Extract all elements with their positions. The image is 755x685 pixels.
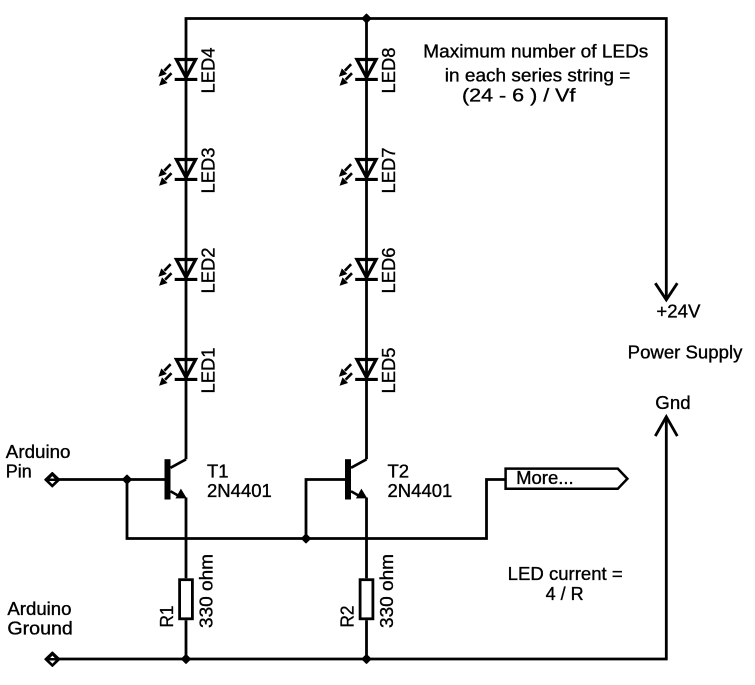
LED LED8	[339, 48, 399, 94]
svg-text:R1: R1	[156, 606, 177, 628]
wire T1 emitter to R1	[185, 498, 188, 579]
wire left LED string (column 1)	[185, 19, 188, 460]
LED LED4	[158, 48, 218, 94]
label Arduino Pin	[6, 441, 71, 482]
junction base net / T2 riser	[302, 534, 311, 543]
svg-text:330 ohm: 330 ohm	[195, 554, 216, 628]
note: LED current formula	[508, 563, 623, 604]
wire T2 emitter to R2	[365, 498, 368, 579]
svg-text:LED2: LED2	[197, 248, 218, 294]
port Arduino Ground	[45, 652, 60, 666]
port Arduino Pin	[45, 473, 60, 487]
+24V supply arrow (down)	[655, 283, 677, 300]
svg-text:330 ohm: 330 ohm	[376, 554, 397, 628]
svg-text:2N4401: 2N4401	[388, 480, 453, 501]
junction top rail / column 2	[362, 14, 371, 23]
wire R2 to ground rail	[365, 620, 368, 659]
wire Arduino Ground rail and Gnd riser	[59, 418, 666, 660]
wire riser to T2 base	[306, 480, 345, 539]
junction R2 / ground rail	[362, 655, 371, 664]
junction R1 / ground rail	[182, 655, 191, 664]
resistor R1 330 ohm	[156, 554, 216, 628]
svg-text:More...: More...	[516, 467, 574, 488]
svg-text:Gnd: Gnd	[655, 392, 690, 413]
svg-text:Maximum number of LEDs: Maximum number of LEDs	[423, 41, 648, 62]
svg-text:T2: T2	[388, 461, 410, 482]
wire top +24V rail	[185, 19, 667, 300]
svg-text:4 / R: 4 / R	[546, 583, 584, 604]
svg-text:T1: T1	[207, 461, 229, 482]
svg-text:Pin: Pin	[6, 461, 32, 482]
svg-text:Ground: Ground	[7, 617, 72, 638]
LED LED3	[158, 148, 218, 194]
LED LED2	[158, 248, 218, 294]
svg-text:Arduino: Arduino	[6, 441, 71, 462]
Gnd arrow (up)	[655, 417, 677, 436]
svg-text:LED current =: LED current =	[508, 563, 623, 584]
svg-text:LED4: LED4	[197, 48, 218, 94]
svg-text:Arduino: Arduino	[7, 598, 71, 619]
resistor R2 330 ohm	[337, 554, 397, 628]
LED LED1	[158, 348, 218, 394]
svg-text:LED1: LED1	[197, 348, 218, 394]
label Arduino Ground	[7, 598, 72, 638]
svg-text:Power Supply: Power Supply	[628, 341, 743, 362]
LED LED6	[339, 248, 399, 294]
wire Arduino Pin to T1 base	[59, 478, 165, 481]
svg-text:in each series string =: in each series string =	[445, 64, 631, 85]
svg-text:LED7: LED7	[378, 148, 399, 194]
junction T1 base	[123, 475, 132, 484]
wire right LED string (column 2)	[365, 19, 368, 460]
note: maximum LEDs formula	[423, 41, 648, 106]
svg-text:LED5: LED5	[378, 348, 399, 394]
LED LED7	[339, 148, 399, 194]
svg-text:R2: R2	[337, 606, 358, 628]
svg-text:LED6: LED6	[378, 248, 399, 294]
transistor T2 2N4401	[345, 459, 452, 501]
svg-text:LED3: LED3	[197, 148, 218, 194]
LED LED5	[339, 348, 399, 394]
wire base net to T2 base and More tag	[127, 480, 506, 539]
transistor T1 2N4401	[165, 459, 272, 501]
svg-text:2N4401: 2N4401	[207, 480, 272, 501]
svg-text:+24V: +24V	[656, 301, 701, 322]
wire R1 to ground rail	[185, 620, 188, 659]
svg-text:LED8: LED8	[378, 48, 399, 94]
svg-text:(24 - 6 ) / Vf: (24 - 6 ) / Vf	[462, 85, 576, 106]
net tag More...	[506, 467, 628, 489]
